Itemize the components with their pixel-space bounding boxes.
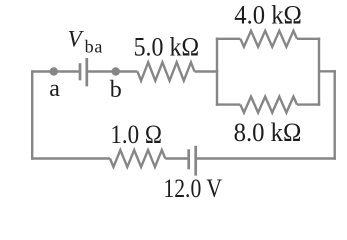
- wire: box top-right segment: [297, 38, 320, 40]
- wire: 5k resistor to parallel box: [195, 70, 219, 72]
- wire: battery V_ba tall plate to node b to 5k resistor: [88, 70, 138, 72]
- svg-text:V: V: [68, 26, 85, 51]
- wire: bottom rail right segment: [197, 157, 336, 159]
- wire: stub from box right edge to outer right wire: [319, 70, 336, 72]
- svg-text:ba: ba: [85, 36, 104, 56]
- svg-text:b: b: [110, 77, 122, 103]
- wire: box bottom-left segment: [216, 103, 241, 105]
- resistor 4.0 kOhm zigzag: [240, 31, 297, 47]
- svg-text:a: a: [49, 76, 60, 102]
- wire: parallel box left edge: [216, 38, 218, 106]
- wire: battery 12.0 V short plate to 1-ohm resistor: [165, 157, 188, 159]
- battery V_ba tall plate (positive terminal): [85, 58, 88, 86]
- svg-text:4.0 kΩ: 4.0 kΩ: [234, 1, 302, 30]
- svg-text:1.0 Ω: 1.0 Ω: [110, 121, 162, 150]
- wire: box top-left segment: [216, 38, 241, 40]
- wire: parallel box right edge: [318, 38, 320, 106]
- battery 12.0 V short plate (negative terminal): [187, 149, 190, 169]
- wire: box bottom-right segment: [297, 103, 320, 105]
- resistor 1.0 Ohm zigzag: [110, 150, 165, 167]
- resistor 5.0 kOhm zigzag: [138, 62, 195, 80]
- node b (junction dot): [112, 67, 120, 75]
- svg-text:12.0 V: 12.0 V: [163, 175, 222, 203]
- svg-text:5.0 kΩ: 5.0 kΩ: [134, 34, 200, 62]
- svg-text:8.0 kΩ: 8.0 kΩ: [234, 119, 302, 148]
- wire: bottom rail left segment: [31, 157, 110, 159]
- battery 12.0 V tall plate (positive terminal): [194, 146, 197, 176]
- wire: left vertical side: [31, 70, 33, 159]
- wire: top-left segment from node a to battery V_ba: [32, 70, 79, 72]
- wire: right vertical side: [334, 70, 336, 160]
- node a (junction dot): [50, 67, 58, 75]
- battery V_ba short plate (negative terminal): [79, 63, 82, 80]
- resistor 8.0 kOhm zigzag: [240, 97, 297, 113]
